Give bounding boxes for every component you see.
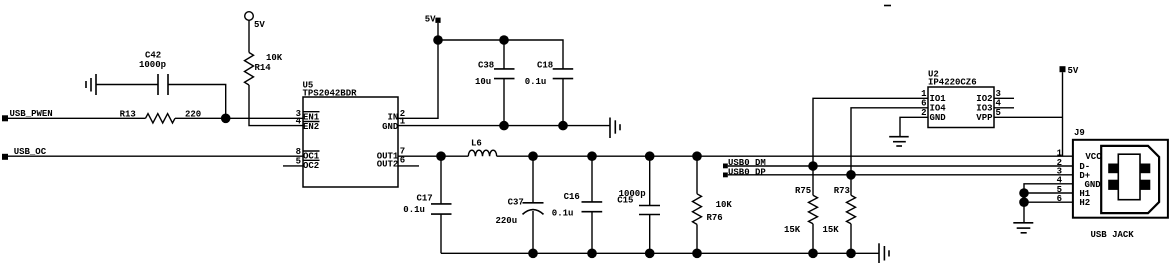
svg-text:C38: C38 [478,61,494,71]
ground (end of GND rail, rotated right) [610,118,620,139]
svg-text:GND: GND [930,113,947,123]
pin 5 OC2 [296,157,320,171]
wire GND rail [398,125,610,127]
svg-text:1000p: 1000p [139,60,166,70]
svg-text:6: 6 [921,98,926,108]
svg-text:GND: GND [382,122,399,132]
svg-text:5: 5 [296,157,301,167]
capacitor C42 [158,74,168,95]
svg-text:IO1: IO1 [930,94,947,104]
connector J9 USB jack body [1073,140,1168,218]
wire OC2 stub [283,165,303,167]
capacitor C16 [582,156,603,253]
svg-text:IO2: IO2 [976,94,992,104]
inductor L6 [468,150,496,156]
svg-text:C42: C42 [145,51,161,61]
svg-text:10K: 10K [266,53,283,63]
wire U2 GND to ground [900,117,928,136]
node USB0_DP [723,173,728,178]
junction (5V/IN/top rail) [433,35,443,45]
wire C42 to junction [168,85,226,119]
svg-text:TPS2042BDR: TPS2042BDR [303,89,358,99]
junction (C38/GND rail) [499,121,509,131]
resistor R14 [245,53,254,86]
svg-text:USB JACK: USB JACK [1091,230,1135,240]
svg-text:J9: J9 [1074,128,1085,138]
wire USB_PWEN to R13 [8,117,146,119]
svg-text:10K: 10K [716,200,733,210]
power 5V (top left circle) [245,12,254,21]
node USB_PWEN [2,115,8,121]
pin 7 OUT1 [377,147,406,162]
wire OUT2 stub [398,165,419,167]
svg-text:R14: R14 [255,63,272,73]
wire OUT1 to L6 [398,155,468,157]
pin 2 D- (jack) [1057,158,1091,172]
svg-text:5V: 5V [1068,66,1079,76]
pin 4 GND (jack) [1057,176,1102,190]
svg-text:0.1u: 0.1u [552,209,574,219]
svg-text:2: 2 [921,108,926,118]
svg-text:R75: R75 [795,186,811,196]
junction (R75/USB0_DM) [808,161,818,171]
wire IO4 to R73 riser [851,108,928,175]
svg-text:1: 1 [1057,148,1063,158]
capacitor C15 [639,156,660,253]
wire USB0_DM to USB jack D- [728,165,1073,167]
pin 5 VPP [976,108,1001,123]
svg-text:C15: C15 [617,196,633,206]
junction (OUT1/C17) [436,151,446,161]
title mark dash [884,5,891,7]
junction (H2/GND riser) [1019,197,1029,207]
wire top rail to C18 [438,40,563,69]
junction (C18/GND rail) [558,121,568,131]
svg-text:R73: R73 [834,186,850,196]
svg-text:C18: C18 [537,61,553,71]
junction (C15 bottom) [645,249,655,259]
ground (end of bottom rail, rotated right) [879,243,889,263]
svg-text:10u: 10u [475,77,491,87]
wire ground to C42 [96,84,158,86]
svg-text:IO3: IO3 [976,104,992,114]
pin 3 D+ (jack) [1057,167,1091,181]
resistor R75 [809,166,818,253]
svg-text:EN2: EN2 [303,122,319,132]
wire jack H1 pin 5 [1024,192,1073,194]
wire R13 to EN1 [175,117,303,119]
svg-text:4: 4 [296,116,302,126]
junction (R76 top) [692,151,702,161]
pin 4 IO3 [976,98,1001,113]
pin 1 GND [382,116,406,132]
wire jack H2 pin 6 [1024,201,1073,203]
svg-text:C16: C16 [564,192,580,202]
svg-text:0.1u: 0.1u [525,77,547,87]
wire IO2 stub [994,97,1014,99]
svg-text:USB0_DP: USB0_DP [728,167,766,177]
svg-text:R13: R13 [120,109,136,119]
pin 6 OUT2 [377,156,406,170]
node USB0_DM [723,164,728,169]
svg-text:H2: H2 [1079,198,1090,208]
junction (R76 bottom) [692,249,702,259]
wire 5V rail L6 to USB jack VCC [497,155,1073,157]
capacitor C38 [494,69,515,79]
node USB_OC [2,154,8,160]
pin 1 IO1 [921,89,946,104]
wire 5V to R14 [248,20,250,52]
junction (C38 top) [499,35,509,45]
svg-text:5V: 5V [425,15,436,25]
svg-text:OC2: OC2 [303,161,319,171]
transistor U2 IP4220CZ6 body [928,87,994,128]
op-amp U5 TPS2042BDR body [303,97,398,187]
svg-text:IP4220CZ6: IP4220CZ6 [928,78,977,88]
svg-text:IO4: IO4 [930,104,947,114]
svg-text:15K: 15K [823,225,840,235]
capacitor C18 [553,69,574,79]
wire C38 bottom stem [503,79,505,126]
wire IO3 stub [994,107,1014,109]
svg-text:1: 1 [921,89,927,99]
wire IN to 5V riser [398,23,438,118]
power 5V (right square) [1060,66,1066,72]
wire VPP to 5V riser [994,116,1063,118]
pin 8 OC1 [296,147,320,162]
svg-text:VPP: VPP [976,113,993,123]
ground (U2) [889,137,909,146]
pin 1 VCC (jack) [1057,148,1103,162]
svg-text:5V: 5V [254,20,265,30]
wire USB_OC to OC1 [8,155,303,157]
svg-text:C37: C37 [508,198,524,208]
svg-text:6: 6 [400,156,405,166]
pin 4 EN2 [296,116,320,132]
pin 6 H2 [1057,194,1091,208]
svg-text:15K: 15K [784,225,801,235]
junction (R75 bottom) [808,249,818,259]
svg-text:3: 3 [996,89,1001,99]
junction (C15 top) [645,151,655,161]
wire C18 bottom stem [562,79,564,126]
junction (C37 top) [528,151,538,161]
resistor R76 [693,156,702,253]
pin 2 IN [387,109,405,123]
wire R14 to EN2 [249,85,303,126]
wire bottom rail [441,252,879,254]
junction (R73 bottom) [846,249,856,259]
svg-text:8: 8 [296,147,301,157]
junction (R73/USB0_DP) [846,170,856,180]
resistor R73 [847,175,856,254]
wire 5V riser to VCC line [1062,72,1064,156]
resistor R13 [146,114,176,123]
USB receptacle symbol [1101,146,1159,213]
wire USB0_DP to USB jack D+ [728,174,1073,176]
junction (R13/C42/EN1) [221,114,231,124]
svg-text:R76: R76 [707,213,723,223]
power 5V (middle square) [435,18,440,23]
capacitor C37 (polarized) [523,156,544,253]
pin 2 GND (U2) [921,108,946,123]
svg-text:220u: 220u [496,216,518,226]
pin 6 IO4 [921,98,946,113]
svg-text:4: 4 [996,98,1002,108]
svg-text:OUT2: OUT2 [377,160,399,170]
wire IO1 to R75 riser [813,98,928,166]
junction (C16 top) [587,151,597,161]
junction (C37 bottom) [528,249,538,259]
junction (H1/GND riser) [1019,188,1029,198]
svg-text:VCC: VCC [1085,152,1102,162]
wire jack GND pin 4 [1024,184,1073,223]
svg-text:5: 5 [996,108,1001,118]
svg-text:L6: L6 [471,138,482,148]
pin 3 IO2 [976,89,1001,104]
pin 5 H1 [1057,185,1091,199]
ground (jack shell) [1013,223,1033,233]
wire C38 top stem [503,40,505,69]
ground (left of C42, rotated left) [86,74,96,95]
pin 3 EN1 [296,109,320,123]
capacitor C17 [431,156,452,253]
svg-text:0.1u: 0.1u [403,205,425,215]
svg-text:C17: C17 [417,193,433,203]
junction (C16 bottom) [587,249,597,259]
